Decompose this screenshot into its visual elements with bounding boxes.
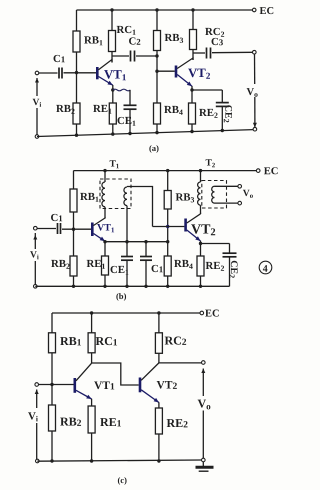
arrow input polarity (c) bbox=[35, 390, 39, 395]
wire RB4-ground (a) bbox=[156, 124, 158, 133]
junction emitter2 (b) bbox=[199, 242, 202, 245]
terminal EC (b) bbox=[256, 169, 260, 173]
resistor RC1 (c) bbox=[88, 333, 95, 353]
wire rail-RC1 (a) bbox=[111, 10, 113, 31]
wire RE1-ground (a) bbox=[112, 124, 114, 134]
wire CE1-ground (a) bbox=[129, 109, 131, 133]
label Vi (a) bbox=[33, 99, 42, 107]
wire ground rail (c) bbox=[37, 460, 201, 461]
wire C1-ground (b) bbox=[145, 260, 147, 286]
junction ground-RB2 (c) bbox=[50, 459, 53, 462]
wire base1-RB2 (c) bbox=[51, 385, 53, 406]
ground symbol bbox=[202, 462, 204, 466]
label RC2 (c) bbox=[165, 337, 186, 345]
junction rail-RC1 (c) bbox=[90, 311, 93, 314]
wire base wire 2 (b) bbox=[153, 226, 185, 228]
resistor RE1 (a) bbox=[109, 103, 116, 124]
wire RC2-collector2 (c) bbox=[158, 353, 160, 363]
wire emitter2-CE2 (a) bbox=[192, 89, 222, 91]
wire emitter2-CE2 (b) bbox=[201, 243, 230, 245]
junction emitter1 (a) bbox=[111, 88, 114, 91]
transistor VT1 (c) emitter bbox=[76, 390, 92, 399]
label Vi (b) bbox=[30, 251, 39, 259]
label RB4 (a) bbox=[164, 106, 183, 115]
resistor RC1 (a) bbox=[109, 31, 116, 52]
wire ground rail (b) bbox=[35, 285, 229, 287]
junction rail-RB3 (a) bbox=[155, 8, 158, 11]
arrow input polarity (b) bbox=[33, 235, 37, 240]
terminal input + (c) bbox=[35, 383, 39, 387]
wire input line upper (a) bbox=[36, 78, 38, 96]
junction ground-RE2 (a) bbox=[190, 130, 193, 133]
label VT2 (b) bbox=[191, 224, 215, 235]
junction rail-RC2 (a) bbox=[191, 8, 194, 11]
transistor VT1 (c) collector bbox=[76, 363, 92, 381]
wire collector2-C3 (a) bbox=[193, 52, 205, 54]
label CE2 (b) rotated bbox=[229, 261, 237, 278]
wire C3-output terminal (a) bbox=[212, 51, 252, 53]
label VT2 (a) bbox=[188, 69, 210, 79]
wire input-C1 (b) bbox=[37, 228, 56, 230]
wire C1-base1 (a) bbox=[64, 72, 97, 74]
junction C1-emitter wire (b) bbox=[144, 240, 147, 243]
capacitor C1 bypass (b) bbox=[140, 257, 152, 261]
transistor VT2 (c) emitter bbox=[141, 390, 159, 403]
junction secondary-emitter wire (b) bbox=[125, 240, 128, 243]
junction ground-CE1 (a) bbox=[128, 132, 131, 135]
transistor VT1 (b) collector bbox=[94, 218, 106, 226]
resistor RE2 (b) bbox=[197, 256, 204, 276]
wire emitter2-RE2 (c) bbox=[158, 402, 160, 408]
wire output line upper (c) bbox=[202, 369, 204, 397]
label T2 bbox=[206, 159, 215, 167]
label (c) bbox=[118, 477, 127, 485]
junction ground-RE1 (c) bbox=[90, 459, 93, 462]
label RE2 (b) bbox=[206, 262, 224, 271]
wire output line (a) bbox=[254, 54, 256, 84]
inductor T1 primary bbox=[102, 182, 105, 207]
wire rail-RC2 (c) bbox=[158, 313, 160, 333]
wire output line lower (c) bbox=[202, 411, 204, 459]
label Vo (a) bbox=[247, 88, 258, 97]
junction rail-RB3 (b) bbox=[166, 169, 169, 172]
label RB3 (b) bbox=[176, 193, 194, 202]
wire C1-base1 (b) bbox=[62, 228, 91, 230]
wire CE2 top (a) bbox=[221, 90, 223, 102]
terminal input + (b) bbox=[34, 226, 38, 230]
label T1 bbox=[110, 160, 119, 168]
label RB1 (c) bbox=[60, 337, 81, 345]
resistor RB2 (b) bbox=[70, 256, 77, 276]
junction base node 1 (a) bbox=[75, 71, 78, 74]
arrow output polarity (a) bbox=[253, 123, 257, 128]
wire base-RB2 (a) bbox=[76, 73, 78, 103]
label C1 bypass (b) bbox=[152, 265, 163, 272]
wire emitter wire (b) bbox=[105, 241, 168, 243]
wire emitter1-RE1 (b) bbox=[104, 242, 106, 256]
wire RE1-ground (c) bbox=[91, 433, 93, 461]
resistor RE2 (a) bbox=[189, 103, 196, 124]
label Vo (b) bbox=[243, 190, 253, 198]
resistor RC2 (c) bbox=[155, 333, 162, 354]
wire base wire 2 (a) bbox=[157, 70, 175, 72]
label EC (c) bbox=[205, 310, 219, 317]
label CE1 (b) bbox=[111, 266, 129, 275]
wire rail-RC1 (c) bbox=[91, 313, 93, 333]
capacitor CE1 (a) bbox=[124, 105, 137, 109]
wire input line lower (c) bbox=[36, 423, 38, 459]
wire RB1-base (a) bbox=[76, 52, 78, 73]
wire EC supply rail (a) bbox=[77, 9, 253, 11]
wire C2-base2 (a) bbox=[136, 55, 157, 57]
label VT1 (c) bbox=[94, 381, 114, 389]
inductor T2 primary bbox=[198, 182, 201, 205]
junction emitter wire-RB4 (b) bbox=[166, 240, 169, 243]
junction ground-RE2 (c) bbox=[157, 459, 160, 462]
wire rail-T2 primary (b) bbox=[200, 171, 202, 182]
label CE1 (a) bbox=[118, 117, 136, 126]
junction base node 2 (a) bbox=[155, 70, 158, 73]
wire rail-T1 primary (b) bbox=[104, 171, 106, 182]
transistor VT1 (a) emitter bbox=[99, 77, 113, 86]
label RB2 (a) bbox=[56, 105, 74, 114]
junction rail-RC2 (c) bbox=[157, 311, 160, 314]
transistor VT1 (b) emitter bbox=[94, 234, 106, 242]
wire RC2-collector VT2 (a) bbox=[192, 50, 194, 61]
terminal output + (b) bbox=[238, 185, 242, 189]
wire RB1 column (a) bbox=[76, 10, 78, 31]
resistor RB1 (a) bbox=[73, 31, 80, 52]
wire EC supply rail (b) bbox=[74, 170, 257, 172]
junction emitter2 (a) bbox=[190, 88, 193, 91]
transistor VT2 (b) base bar bbox=[184, 219, 187, 232]
resistor RE1 (c) bbox=[88, 406, 95, 433]
junction ground-RE1 (b) bbox=[103, 285, 106, 288]
label (b) bbox=[116, 293, 126, 301]
wire collector1-C2 (a) bbox=[112, 55, 129, 57]
transistor VT1 (c) base bar bbox=[74, 378, 77, 393]
wire CE1-ground (b) bbox=[126, 260, 128, 286]
transistor VT2 (a) emitter bbox=[177, 75, 192, 87]
label C1 input (b) bbox=[51, 214, 62, 221]
label RC1 (a) bbox=[117, 26, 136, 35]
label RB2 (c) bbox=[60, 418, 81, 426]
wire RE1-ground (b) bbox=[104, 275, 106, 286]
transistor VT1 (b) base bar bbox=[91, 223, 94, 237]
wire RE2-ground (b) bbox=[200, 276, 202, 286]
capacitor C2 bbox=[131, 51, 135, 62]
resistor RC2 (a) bbox=[190, 30, 197, 50]
terminal output + (c) bbox=[202, 361, 206, 365]
arrow input polarity (a) bbox=[35, 78, 39, 83]
label RC1 (c) bbox=[96, 337, 117, 345]
junction rail-T2 (b) bbox=[199, 169, 202, 172]
wire collector2-output (c) bbox=[159, 362, 202, 364]
wire rail-RB1 (c) bbox=[51, 313, 53, 333]
transistor VT2 (b) emitter bbox=[187, 230, 201, 241]
wire CE2-ground (b) bbox=[229, 257, 231, 287]
wire emitter1-RE1 (c) bbox=[91, 399, 93, 406]
junction C2-RB3 column (a) bbox=[155, 54, 158, 57]
wire RB1-base1 (c) bbox=[51, 353, 53, 385]
wire RE2-ground (c) bbox=[158, 434, 160, 461]
wire T2 secondary top (b) bbox=[215, 185, 239, 187]
capacitor C3 bbox=[207, 48, 211, 59]
label RB1 (b) bbox=[80, 193, 98, 202]
wire input-base1 (c) bbox=[39, 384, 74, 386]
junction ground-C1 (b) bbox=[144, 285, 147, 288]
wire input line lower (b) bbox=[34, 261, 36, 285]
wire CE2-ground (a) bbox=[221, 106, 223, 130]
wire T2 secondary bottom (b) bbox=[215, 202, 239, 204]
transistor VT2 (a) collector bbox=[177, 58, 193, 69]
terminal input - (c) bbox=[36, 459, 40, 463]
terminal output + (a) bbox=[253, 50, 257, 54]
transistor VT2 (b) collector bbox=[187, 214, 201, 223]
resistor RB3 (a) bbox=[154, 31, 161, 51]
label EC (a) bbox=[260, 7, 274, 14]
label VT1 (a) bbox=[104, 70, 126, 80]
transistor VT2 (c) collector bbox=[141, 363, 159, 380]
wire CE1 top (a) bbox=[129, 90, 131, 105]
wire input-C1 (a) bbox=[39, 72, 58, 74]
junction base node 1 (b) bbox=[72, 228, 75, 231]
resistor RE1 (b) bbox=[102, 256, 109, 275]
arrow output polarity (c) bbox=[201, 369, 205, 374]
label C2 (a) bbox=[129, 37, 140, 44]
wire RB3-RB4 column (b) bbox=[167, 209, 169, 256]
wire rail-RB3 (a) bbox=[156, 10, 158, 31]
wire RB1-base1 (b) bbox=[73, 212, 75, 229]
resistor RB2 (c) bbox=[49, 405, 56, 431]
wire base1-RB2 (b) bbox=[73, 229, 75, 256]
wire emitter wire-C1 (b) bbox=[145, 242, 147, 257]
label Vi (c) bbox=[28, 412, 38, 421]
label Vo (c) bbox=[198, 400, 211, 410]
junction ground-RE2 (b) bbox=[199, 285, 202, 288]
label RB1 (a) bbox=[84, 36, 102, 45]
terminal output - (c) bbox=[202, 458, 206, 462]
figure number 4 circled bbox=[259, 261, 272, 274]
wire rail-RB1 (b) bbox=[73, 171, 75, 189]
resistor RB1 (b) bbox=[70, 189, 77, 212]
wire output line lower (a) bbox=[254, 97, 256, 127]
junction ground-RB4 (a) bbox=[155, 131, 158, 134]
wire input line upper (c) bbox=[36, 390, 38, 409]
wire CE2 top (b) bbox=[229, 244, 231, 254]
wire T2 primary-collector2 (b) bbox=[200, 205, 202, 214]
wire RB2-ground (c) bbox=[51, 431, 53, 461]
transistor VT2 (c) base bar bbox=[139, 378, 142, 393]
label RE1 (b) bbox=[87, 260, 105, 269]
label VT2 (c) bbox=[157, 381, 177, 389]
junction rail-T1 (b) bbox=[103, 169, 106, 172]
terminal input - (a) bbox=[35, 135, 39, 139]
junction emitter1 (b) bbox=[103, 240, 106, 243]
wire emitter2 down (b) bbox=[200, 241, 202, 256]
wire RC1-collector1 (c) bbox=[91, 353, 93, 363]
wire RB2-ground (a) bbox=[76, 124, 78, 135]
label RE2 (a) bbox=[199, 109, 217, 118]
wire RB4-ground (b) bbox=[167, 276, 169, 286]
transistor VT1 (a) collector bbox=[99, 60, 113, 70]
wire coupling collector1-base2 (c) bbox=[92, 363, 139, 385]
resistor RB4 (a) bbox=[154, 103, 161, 124]
resistor RB4 (b) bbox=[164, 256, 171, 276]
junction base node 2 (b) bbox=[166, 225, 169, 228]
label RE1 (c) bbox=[100, 418, 121, 426]
label RC2 (a) bbox=[205, 28, 224, 37]
terminal EC (a) bbox=[252, 8, 256, 12]
wire RB3-RB4 column (a) bbox=[156, 51, 158, 104]
capacitor CE2 (b) bbox=[223, 253, 237, 257]
terminal input + (a) bbox=[35, 71, 39, 75]
label (a) bbox=[149, 145, 158, 153]
junction base node 1 (c) bbox=[50, 383, 53, 386]
wire T1 primary-collector1 (b) bbox=[104, 207, 106, 219]
label RB2 (b) bbox=[51, 260, 69, 269]
wire ground rail (a) bbox=[37, 130, 253, 137]
terminal output - (a) bbox=[253, 127, 257, 131]
resistor RE2 (c) bbox=[155, 408, 162, 434]
capacitor CE2 (a) bbox=[216, 103, 229, 107]
label VT1 (b) bbox=[97, 224, 114, 232]
transistor VT1 (a) base bar bbox=[96, 67, 99, 79]
wire EC supply rail (c) bbox=[52, 312, 200, 314]
wire emitter1-CE1 (a) bbox=[113, 89, 131, 91]
label RE2 (c) bbox=[167, 419, 188, 427]
capacitor C1 bbox=[59, 68, 62, 79]
wire RB2-ground (b) bbox=[73, 276, 75, 286]
junction ground-RE1 (a) bbox=[111, 132, 114, 135]
capacitor C1 input (b) bbox=[58, 223, 61, 234]
junction ground-RB2 (b) bbox=[72, 285, 75, 288]
capacitor CE1 (b) bbox=[121, 257, 133, 261]
wire rail-RB3 (b) bbox=[167, 171, 169, 191]
wire emitter1 down (a) bbox=[112, 85, 114, 103]
terminal output - (b) bbox=[238, 201, 242, 205]
label RB4 (b) bbox=[174, 260, 193, 269]
label RE1 (a) bbox=[93, 105, 111, 114]
junction ground-CE1 (b) bbox=[125, 285, 128, 288]
transformer T2 core box bbox=[202, 181, 227, 209]
label EC (b) bbox=[264, 167, 278, 174]
wire RC1-collector VT1 (a) bbox=[111, 52, 113, 63]
wire RE2-ground (a) bbox=[191, 124, 193, 132]
junction ground-RB2 (a) bbox=[75, 134, 78, 137]
resistor RB2 (a) bbox=[73, 103, 80, 124]
label CE2 (a) rotated bbox=[224, 105, 232, 122]
junction rail-RC1 (a) bbox=[110, 8, 113, 11]
wire T1 secondary bottom (b) bbox=[126, 206, 128, 256]
label C1 (a) bbox=[54, 55, 65, 62]
wire input line upper (b) bbox=[34, 233, 36, 249]
wire rail-RC2 (a) bbox=[192, 10, 194, 30]
junction ground-CE2 (a) bbox=[221, 129, 224, 132]
wire T1 secondary top (b) bbox=[127, 187, 153, 227]
inductor T2 secondary bbox=[212, 186, 215, 203]
resistor RB3 (b) bbox=[164, 191, 171, 210]
terminal input - (b) bbox=[34, 285, 38, 289]
terminal EC (c) bbox=[200, 311, 204, 315]
inductor T1 secondary bbox=[124, 187, 127, 206]
wire emitter2 down (a) bbox=[191, 86, 193, 103]
label C3 (a) bbox=[212, 38, 223, 45]
transistor VT2 (a) base bar bbox=[175, 66, 178, 78]
junction ground-RB4 (b) bbox=[166, 285, 169, 288]
wire input line lower (a) bbox=[36, 108, 38, 135]
resistor RB1 (c) bbox=[49, 333, 56, 353]
transformer T1 core box bbox=[100, 179, 131, 209]
label RB3 (a) bbox=[165, 34, 183, 43]
